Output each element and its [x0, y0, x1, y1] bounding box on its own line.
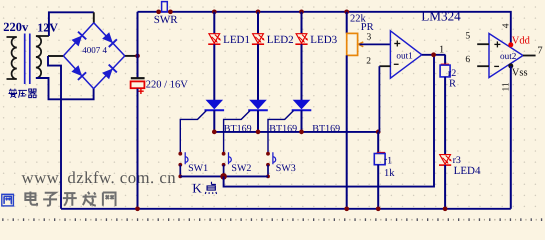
label 22k — [350, 13, 367, 24]
label K点 — [192, 181, 216, 196]
node cathode bus junction Q2 — [256, 130, 261, 135]
watermark 电子开发网 — [25, 192, 115, 206]
watermark www.dzkfw.com.cn — [22, 168, 177, 187]
label LM324 — [421, 8, 461, 23]
svg-text:220 / 16V: 220 / 16V — [146, 80, 188, 91]
switch SW3 — [266, 152, 276, 167]
switch SW2 — [222, 152, 232, 167]
svg-text:SW3: SW3 — [276, 163, 296, 174]
label r3 — [453, 155, 461, 166]
node ground junction r1 — [376, 206, 381, 211]
svg-text:out2: out2 — [500, 51, 517, 61]
wire PR wiper to pin 3 — [360, 43, 391, 45]
node SW3 common junction — [266, 175, 270, 179]
pin stub U1B output pin7 — [523, 55, 536, 57]
bridge diode D3 (left to bottom) — [63, 56, 93, 89]
potentiometer PR wiper — [358, 42, 363, 47]
wire secondary-bottom to bridge bottom corner — [36, 78, 94, 99]
label LED2 — [267, 34, 294, 46]
svg-text:r1: r1 — [384, 155, 392, 166]
label pin 7 — [537, 45, 542, 56]
label 变压器 — [8, 89, 36, 98]
wire SW2 to common — [223, 165, 225, 177]
wire top bus to PR — [346, 12, 348, 34]
wire LED4 to ground bus — [444, 165, 446, 209]
resistor r1 red tick — [377, 152, 385, 154]
node Vss pin — [508, 63, 513, 68]
label SW3 — [276, 163, 296, 174]
node SWR left terminal — [156, 9, 161, 14]
wire Q2 gate to SW2 — [224, 111, 250, 154]
svg-text:LED2: LED2 — [267, 34, 294, 46]
wire top bus to LED1 — [213, 12, 215, 34]
pin stub bridge top corner — [93, 12, 95, 22]
svg-text:12V: 12V — [37, 21, 58, 35]
node cathode bus junction Q1 — [212, 130, 217, 135]
pin stub U1B pin6 — [477, 65, 489, 67]
label BT169 (Q2) — [269, 123, 297, 134]
svg-text:Vss: Vss — [512, 67, 528, 78]
node Vdd pin — [508, 42, 513, 47]
node top bus junction LED3 — [299, 9, 304, 14]
wire Q2 cathode — [257, 110, 259, 132]
label 1k — [384, 168, 395, 179]
label LED3 — [310, 34, 337, 46]
svg-text:SWR: SWR — [154, 14, 179, 26]
wire DC+ rail bottom segment — [137, 89, 139, 209]
node top bus junction PR — [344, 9, 349, 14]
svg-text:SW2: SW2 — [231, 163, 251, 174]
label LED1 — [223, 34, 250, 46]
wire DC+ rail top segment — [137, 12, 139, 78]
node SWR right terminal — [168, 9, 173, 14]
wire cathode bus — [214, 131, 378, 133]
potentiometer PR body — [347, 33, 358, 55]
label pin 11 — [501, 82, 511, 91]
node cathode bus to r1/pin2 — [376, 130, 381, 135]
wire ground bus — [61, 208, 511, 210]
node cathode bus junction Q3 — [299, 130, 304, 135]
svg-text:K: K — [192, 181, 202, 196]
label LED4 — [454, 165, 481, 177]
bridge diode D4 (bottom to right) — [94, 56, 125, 89]
wire SW3 to common — [267, 165, 269, 177]
wire node1 to r2 — [444, 55, 446, 64]
svg-text:7: 7 — [537, 45, 542, 56]
node ground junction LED4 — [443, 206, 448, 211]
wire out1 output — [422, 54, 446, 56]
capacitor C1 top plate — [131, 77, 145, 79]
svg-text:6: 6 — [465, 55, 470, 65]
wire Vss to ground bus — [510, 66, 512, 209]
wire top supply bus — [138, 12, 511, 45]
svg-text:LM324: LM324 — [421, 8, 461, 23]
label node 1 — [439, 44, 444, 55]
label BT169 (Q1) — [224, 123, 252, 134]
svg-text:PR: PR — [361, 22, 374, 33]
svg-text:1: 1 — [439, 44, 444, 55]
label R — [449, 79, 456, 90]
op-amp U1B out2 — [489, 34, 523, 78]
svg-text:r2: r2 — [448, 68, 456, 79]
label pin 6 — [465, 55, 470, 65]
pin stub bridge right corner — [125, 55, 138, 57]
wire LED3 to thyristor Q3 — [301, 44, 303, 100]
wire r2 to LED4 — [444, 77, 446, 155]
label SWR — [154, 14, 179, 26]
svg-text:LED3: LED3 — [310, 34, 337, 46]
label r2 — [448, 68, 456, 79]
LED2 — [252, 34, 265, 45]
label SW1 — [188, 163, 208, 174]
label r1 — [384, 155, 392, 166]
wire secondary-top to bridge top corner — [49, 12, 94, 36]
label BT169 (Q3) — [312, 123, 340, 134]
svg-text:LED1: LED1 — [223, 34, 250, 46]
pin stub U1A pin2 — [379, 65, 390, 67]
label pin 3 — [367, 33, 372, 43]
LED1 — [208, 34, 221, 45]
node SW1 common junction — [178, 175, 182, 179]
watermark logo box 网 — [2, 194, 14, 206]
label 12V — [37, 21, 58, 35]
svg-text:4: 4 — [501, 23, 511, 28]
label Vdd — [512, 36, 531, 47]
node SW2 common junction — [222, 175, 226, 179]
node bridge DC+ junction — [135, 54, 140, 59]
label 220 / 16V — [146, 80, 188, 91]
svg-text:2: 2 — [366, 56, 371, 66]
wire net K to node 1 — [224, 55, 434, 187]
svg-text:220v: 220v — [3, 20, 29, 34]
node ground junction DC rail — [135, 206, 140, 211]
label pin 2 — [366, 56, 371, 66]
node K big junction — [220, 173, 227, 180]
wire Q3 gate to SW3 — [268, 111, 294, 154]
LED3 — [295, 34, 308, 45]
svg-text:LED4: LED4 — [454, 165, 481, 177]
pin stub U1B pin5 — [477, 43, 489, 45]
label Vss — [512, 67, 528, 78]
bridge diode D2 (top to right) — [94, 23, 125, 56]
wire Q1 cathode — [213, 110, 215, 132]
fuse SWR body — [162, 2, 168, 12]
label SW2 — [231, 163, 251, 174]
switch SW1 — [178, 152, 188, 167]
svg-text:3: 3 — [367, 33, 372, 43]
svg-text:SW1: SW1 — [188, 163, 208, 174]
wire PR bottom to ground bus — [346, 55, 348, 208]
thyristor Q1 BT169 — [205, 100, 225, 111]
label PR — [361, 22, 374, 33]
wire r1 to ground bus — [377, 165, 379, 209]
transformer core — [25, 34, 30, 85]
transformer T1 secondary coil — [36, 36, 49, 78]
svg-text:www. dzkfw. com. cn: www. dzkfw. com. cn — [22, 168, 177, 187]
wire switch common bus — [180, 175, 268, 177]
wire bridge left corner to ground bus — [48, 56, 61, 209]
bottom cropped text row — [2, 218, 542, 221]
node top bus junction LED2 — [256, 9, 261, 14]
node top bus junction LED1 — [212, 9, 217, 14]
node 1 — [431, 52, 436, 57]
transformer T1 primary coil — [7, 37, 17, 79]
pin stub bridge left corner — [48, 55, 63, 57]
svg-text:Vdd: Vdd — [512, 36, 531, 47]
wire Q1 gate to SW1 — [180, 111, 206, 154]
svg-text:4007 4: 4007 4 — [82, 45, 107, 55]
wire top bus to LED2 — [257, 12, 259, 34]
label pin 5 — [465, 32, 470, 42]
svg-text:R: R — [449, 79, 456, 90]
capacitor C1 polarity + — [138, 88, 144, 94]
label 4007 4 — [82, 45, 107, 55]
wire top bus to LED3 — [301, 12, 303, 34]
svg-text:out1: out1 — [396, 50, 413, 60]
label pin 4 — [501, 23, 511, 28]
svg-text:5: 5 — [465, 32, 470, 42]
wire LED1 to thyristor Q1 — [213, 44, 215, 100]
wire pin 2 to cathode bus — [378, 66, 380, 132]
capacitor C1 body — [131, 81, 145, 88]
op-amp U1A out1 — [390, 31, 421, 78]
wire SW1 to common — [179, 165, 181, 177]
wire cathode bus to r1 — [377, 132, 379, 154]
thyristor Q3 BT169 — [292, 100, 312, 111]
svg-text:1k: 1k — [384, 168, 395, 179]
wire LED2 to thyristor Q2 — [257, 44, 259, 100]
resistor r2 — [440, 65, 450, 77]
wire Q3 cathode — [301, 110, 303, 132]
label 220v — [3, 20, 29, 34]
LED4 — [439, 155, 452, 166]
resistor r1 — [374, 154, 385, 165]
resistor r2 red tick — [441, 63, 449, 65]
bridge diode D1 (left to top) — [63, 23, 93, 56]
thyristor Q2 BT169 — [248, 100, 268, 111]
node ground junction PR — [344, 206, 349, 211]
